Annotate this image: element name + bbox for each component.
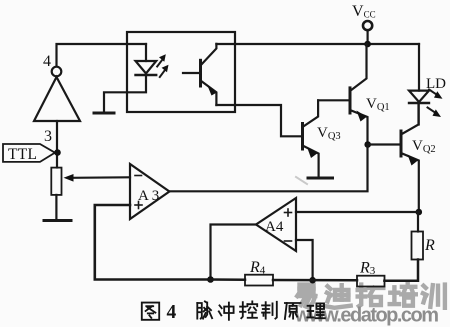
bottom rail wire left of R4 bbox=[209, 278, 245, 281]
wire Vcc rail to LD bbox=[418, 44, 420, 91]
op-amp A3 bbox=[130, 164, 169, 219]
opto phototransistor base stub bbox=[183, 72, 201, 74]
opto LED D1 bbox=[136, 61, 157, 74]
svg-text:3: 3 bbox=[44, 128, 52, 145]
resistor R body bbox=[412, 232, 424, 260]
transistor VQ1 bbox=[350, 44, 368, 145]
Vcc terminal circle bbox=[363, 21, 372, 30]
A4 minus sign bbox=[285, 240, 292, 242]
wire pin 3 bbox=[56, 121, 58, 168]
watermark 易迪拓培训 bbox=[297, 284, 445, 308]
wire pin4 to optocoupler LED bbox=[57, 44, 147, 66]
transistor VQ2 bbox=[401, 102, 419, 212]
opto LED light arrows bbox=[157, 54, 168, 77]
resistor R3 body bbox=[357, 276, 385, 287]
A4 + input wire from VQ2 emitter node bbox=[296, 211, 419, 213]
wire R to bottom rail bbox=[384, 260, 418, 281]
opto phototransistor emitter with arrow bbox=[201, 81, 217, 106]
inverter U1 triangle bbox=[34, 77, 80, 121]
svg-text:R: R bbox=[424, 237, 435, 254]
transistor VQ3 bbox=[303, 100, 319, 177]
laser diode LD bbox=[409, 91, 429, 102]
svg-text:A 3: A 3 bbox=[138, 188, 159, 204]
TTL tag bbox=[3, 144, 55, 162]
wire VQ3 collector to VQ1 base bbox=[318, 99, 350, 101]
node VQ1 emitter / VQ2 base / A3 out bbox=[364, 141, 371, 148]
A3 noninverting input feedback wire bbox=[95, 205, 209, 280]
LD light arrows bbox=[428, 90, 443, 118]
caption 图4 脉冲控制原理 (drawn strokes) bbox=[142, 301, 325, 319]
opto phototransistor Q4 bar bbox=[199, 60, 202, 86]
A4 output wire down to bottom rail bbox=[211, 225, 257, 280]
opto LED cathode to ground wire bbox=[104, 75, 146, 112]
node TTL junction bbox=[54, 149, 61, 156]
node A4- / bottom rail bbox=[309, 277, 316, 284]
op-amp A4 (points left) bbox=[256, 198, 296, 251]
potentiometer wiper arrow / wire to A3 inverting input bbox=[72, 176, 130, 179]
opto phototransistor collector bbox=[201, 44, 217, 66]
A4 plus sign bbox=[285, 209, 292, 216]
node VQ2 emitter / R / A4+ bbox=[416, 209, 423, 216]
bottom rail wire R4 to R3 bbox=[273, 279, 357, 282]
node A4 out / bottom rail bbox=[207, 276, 214, 283]
svg-text:A4: A4 bbox=[265, 219, 284, 235]
svg-text:4: 4 bbox=[167, 302, 177, 323]
ground at optocoupler bbox=[94, 112, 114, 115]
Vcc rail wire bbox=[216, 43, 419, 45]
resistor R4 body bbox=[245, 275, 273, 286]
A3 output wire up to VQ1 emitter node bbox=[169, 145, 367, 192]
potentiometer RP1 body bbox=[51, 168, 61, 195]
A3 minus sign bbox=[135, 175, 142, 177]
wire opto emitter to VQ3 base bbox=[216, 105, 302, 136]
wire node down to R bbox=[417, 212, 419, 232]
ground below VQ3 bbox=[308, 177, 333, 180]
svg-text:4: 4 bbox=[43, 53, 51, 70]
wire pot to ground bbox=[55, 195, 57, 220]
node Vcc junction bbox=[364, 41, 371, 48]
wire node to VQ2 base bbox=[368, 143, 401, 145]
svg-text:TTL: TTL bbox=[8, 146, 37, 163]
scan artifact stroke bbox=[296, 177, 307, 184]
A4 - input wire to R4/R3 node bbox=[296, 240, 313, 280]
inverter bubble pin 4 bbox=[52, 67, 62, 77]
optocoupler U2 box bbox=[127, 32, 235, 112]
A3 plus sign bbox=[135, 202, 142, 209]
ground below potentiometer bbox=[44, 219, 71, 222]
opto LED anode wire bbox=[145, 44, 147, 61]
